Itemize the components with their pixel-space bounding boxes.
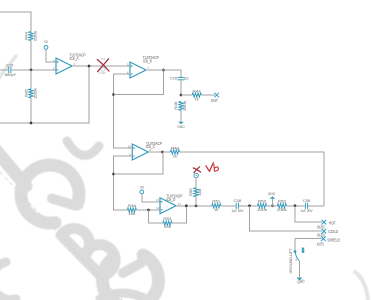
watermark letter B lobe 2 — [85, 245, 115, 275]
wire R53 to C39 — [286, 205, 305, 207]
svg-text:GND: GND — [99, 72, 106, 75]
svg-text:220k: 220k — [33, 31, 38, 42]
svg-text:100k: 100k — [277, 207, 287, 212]
svg-text:3: 3 — [295, 258, 297, 262]
op-amp IC6_B — [130, 62, 146, 78]
svg-text:680pF: 680pF — [5, 72, 17, 77]
svg-text:XLR1: XLR1 — [317, 241, 325, 246]
resistor R50 — [194, 188, 198, 197]
resistor R47 — [181, 94, 192, 96]
wire SHIELD branch — [295, 238, 322, 240]
svg-text:5: 5 — [127, 62, 129, 66]
wire cap to node — [180, 80, 182, 95]
svg-text:C39: C39 — [303, 198, 311, 203]
svg-text:12: 12 — [156, 206, 160, 210]
wire HOT branch — [295, 206, 322, 222]
svg-text:1uF, 50V: 1uF, 50V — [232, 208, 244, 213]
svg-text:GROUND-LIFT: GROUND-LIFT — [288, 248, 293, 274]
watermark letter B lobe 1 — [63, 228, 90, 255]
red X over ghost pin — [97, 59, 109, 72]
svg-text:R46: R46 — [173, 102, 178, 110]
wire R50 to chain — [195, 197, 197, 206]
svg-text:10: 10 — [127, 144, 131, 148]
resistor R46 — [179, 101, 183, 110]
resistor R51 — [212, 204, 221, 208]
wire IC6_B inv input loop — [114, 74, 133, 148]
svg-text:1k: 1k — [195, 96, 199, 101]
svg-text:HOT: HOT — [329, 220, 336, 225]
node junction R44/R45/input — [30, 69, 33, 72]
svg-text:100k: 100k — [182, 101, 187, 111]
wire R54 to output — [172, 206, 186, 223]
svg-text:7: 7 — [147, 66, 149, 70]
wire C39 to corner — [308, 205, 324, 207]
wire IC6_C inv input — [114, 156, 133, 210]
node junction at 31,123 — [30, 122, 33, 125]
svg-text:VD: VD — [44, 39, 48, 44]
op-amp IC6_C — [132, 144, 148, 160]
wire feedback IC6_B — [114, 70, 164, 95]
svg-text:1uF, 50V: 1uF, 50V — [301, 208, 313, 213]
svg-text:GND: GND — [268, 191, 275, 196]
watermark letter G2 ring — [103, 255, 159, 300]
wire long line to output network — [179, 152, 324, 206]
svg-text:IC6_D: IC6_D — [166, 197, 175, 202]
node junction GND tap — [271, 204, 274, 207]
svg-text:R52: R52 — [258, 199, 266, 204]
wire COLD branch — [250, 206, 323, 231]
pin HOT XLR2 — [322, 220, 327, 225]
wire IC6_B output — [146, 70, 181, 77]
svg-text:C15: C15 — [6, 62, 13, 67]
svg-text:13: 13 — [156, 198, 160, 202]
svg-text:R47: R47 — [193, 88, 201, 93]
ground GND bottom — [297, 278, 303, 281]
svg-text:C16: C16 — [170, 76, 177, 81]
node junction R54 tap — [147, 209, 150, 212]
wire R52-R53 — [267, 205, 278, 207]
svg-text:GND: GND — [177, 124, 184, 129]
wire SHIELD to switch — [294, 239, 296, 250]
wire top feedback horizontal — [0, 12, 31, 32]
pin OUT — [214, 93, 219, 98]
svg-text:R49: R49 — [128, 203, 136, 208]
svg-text:1k: 1k — [173, 153, 177, 158]
svg-text:3: 3 — [53, 58, 55, 62]
svg-text:C38: C38 — [234, 198, 242, 203]
watermark letter G ring — [21, 165, 79, 223]
watermark letter G crossbar — [52, 199, 75, 206]
wire feedback IC6_C — [114, 152, 164, 174]
svg-text:10k: 10k — [128, 211, 135, 216]
switch GROUND-LIFT — [294, 250, 297, 253]
svg-text:OUT: OUT — [211, 98, 218, 103]
svg-text:2: 2 — [53, 66, 55, 70]
wire C38 to node — [239, 205, 258, 207]
wire switch to GND — [299, 261, 301, 277]
resistor R53 — [277, 204, 286, 208]
node junction output/feedback — [88, 65, 91, 68]
capacitor C16 — [177, 76, 184, 78]
resistor R48 — [163, 151, 171, 153]
svg-text:100k: 100k — [257, 207, 267, 212]
watermark fragment bowl piece upper — [67, 141, 99, 155]
svg-text:R54: R54 — [163, 216, 172, 221]
svg-text:220k: 220k — [33, 88, 38, 99]
svg-text:R44: R44 — [24, 31, 29, 40]
svg-text:IC6_A: IC6_A — [70, 56, 79, 61]
op-amp IC6_A — [56, 58, 72, 74]
resistor R45 — [30, 70, 32, 89]
svg-text:2u2: 2u2 — [184, 76, 188, 81]
svg-text:10k: 10k — [164, 224, 171, 229]
node junction R54 rejoin — [185, 204, 188, 207]
node junction COLD tap — [248, 204, 251, 207]
wire R46 to GND — [180, 110, 182, 121]
svg-text:IC6_B: IC6_B — [143, 58, 152, 63]
watermark dashed diagonal line — [0, 172, 122, 300]
svg-text:1k: 1k — [214, 207, 218, 212]
pin SHIELD XLR1 — [321, 236, 326, 241]
watermark fragment diagonal bar left — [0, 149, 26, 186]
resistor R44 — [29, 32, 33, 41]
wire R54 loop down — [149, 210, 163, 223]
capacitor C38 — [235, 203, 237, 209]
svg-text:R50: R50 — [188, 187, 193, 196]
node junction feedback B — [112, 93, 115, 96]
node junction feedback C — [112, 173, 115, 176]
svg-text:R48: R48 — [171, 145, 179, 150]
svg-text:8: 8 — [150, 148, 152, 152]
watermark fragment bottom-left corner — [0, 262, 16, 300]
resistor R49 — [127, 208, 136, 212]
watermark fragment bottom arc — [100, 293, 146, 299]
wire bottom feedback horizontal — [0, 66, 89, 123]
watermark letter B spine — [61, 235, 101, 276]
wire input line left — [0, 69, 8, 71]
wire cap to opamp input — [11, 69, 56, 71]
watermark fragment bottom-right corner arc — [355, 272, 368, 300]
wire IC6_C output — [148, 151, 162, 153]
red X over Vb pin — [193, 167, 201, 173]
svg-text:R53: R53 — [278, 199, 286, 204]
wire IC6_A output to IC6_B input — [72, 65, 130, 67]
op-amp IC6_D — [160, 198, 176, 214]
pin COLD XLR3 — [322, 229, 327, 234]
svg-text:COLD: COLD — [328, 229, 338, 234]
node junction HOT tap — [294, 204, 297, 207]
capacitor C39 — [304, 203, 306, 209]
ground GND below R46 — [178, 122, 183, 125]
wire R44 to input node — [30, 41, 32, 71]
wire R45 down to bottom feedback — [30, 98, 32, 123]
watermark letter G2 bar — [123, 263, 141, 273]
svg-text:R45: R45 — [24, 89, 29, 97]
svg-text:10k: 10k — [197, 189, 202, 196]
crossed supply pin Vb — [194, 173, 198, 177]
svg-text:VD: VD — [140, 184, 144, 189]
svg-text:1: 1 — [73, 62, 75, 66]
node junction R50 branch — [195, 204, 198, 207]
node junction at 181,95 — [180, 94, 183, 97]
svg-text:R51: R51 — [212, 199, 220, 204]
svg-text:SHIELD: SHIELD — [327, 237, 340, 242]
wire IC6_D output — [176, 205, 212, 207]
node junction on IC6_B output — [162, 69, 165, 72]
node junction on IC6_C output — [161, 151, 164, 154]
watermark fragment thin diagonal top-left — [0, 56, 16, 79]
resistor R54 — [163, 221, 172, 225]
wire R51 to C38 — [221, 205, 236, 207]
resistor R52 — [258, 204, 267, 208]
svg-text:XLR2: XLR2 — [317, 224, 325, 229]
capacitor C15 680pF — [8, 67, 10, 73]
ground GND above chain — [272, 199, 274, 206]
annotation Vb red — [206, 163, 214, 172]
svg-text:TP9: TP9 — [100, 58, 106, 61]
